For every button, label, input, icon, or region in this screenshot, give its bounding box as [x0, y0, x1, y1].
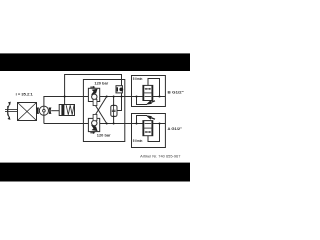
flushing component between A and B	[111, 105, 117, 116]
svg-text:A G1/2": A G1/2"	[168, 126, 183, 131]
svg-text:i = 35.2:1: i = 35.2:1	[16, 92, 33, 96]
junction dot component top on line A	[113, 96, 115, 98]
rotation arrows symbol	[8, 104, 10, 118]
wire: cross line from V1 outlet to line B	[95, 105, 107, 124]
bottom flow control valve	[143, 121, 153, 136]
brake (spring applied)	[59, 105, 74, 116]
junction dot shuttle leg on line A	[121, 96, 123, 98]
wire: line A (upper main line)	[44, 97, 165, 124]
top letterbox bar	[0, 53, 190, 71]
svg-text:Artikel Nr. 740 655-967: Artikel Nr. 740 655-967	[140, 155, 180, 159]
bottom letterbox bar	[0, 163, 190, 182]
junction dot component bottom on line B	[113, 123, 115, 125]
top block branch with check	[137, 97, 147, 105]
bottom block branch with check	[137, 116, 147, 124]
hydraulic motor	[39, 106, 48, 115]
wire: component bridge vertical	[113, 97, 115, 124]
gearbox i=35.2:1	[18, 103, 37, 121]
brake piston	[61, 105, 64, 115]
svg-text:120 bar: 120 bar	[94, 81, 108, 86]
top block bypass loop	[148, 79, 160, 97]
node: manifold enclosure box	[83, 80, 124, 142]
bottom block bypass loop	[148, 124, 160, 142]
relief valve V1 (top, 120 bar)	[88, 88, 99, 101]
bottom check valve arrow	[146, 115, 152, 119]
relief valve V2 (bottom, 120 bar)	[88, 118, 99, 131]
coupling right of motor	[49, 108, 52, 114]
svg-text:5 l/min: 5 l/min	[133, 138, 143, 143]
wire: pilot line from brake up and over to shuttle	[65, 75, 122, 111]
wire: line B (lower main line)	[44, 123, 165, 125]
junction dot cross to line B	[106, 123, 108, 125]
coupling left of motor	[36, 108, 39, 114]
input shaft (double line)	[5, 110, 18, 112]
top check valve arrow	[146, 100, 152, 104]
junction dot pilot x line A	[64, 96, 66, 98]
svg-text:120 bar: 120 bar	[97, 133, 111, 138]
junction dot cross to line A	[106, 96, 108, 98]
V2 pilot arrow below	[90, 132, 93, 134]
right block bottom (port A)	[132, 114, 166, 148]
right block top (port B)	[132, 76, 166, 107]
brake spring	[66, 105, 74, 115]
top flow control valve	[143, 85, 153, 100]
svg-text:B G1/2": B G1/2"	[168, 89, 184, 94]
svg-text:5 l/min: 5 l/min	[133, 76, 143, 81]
V1 pilot arrow on top	[90, 86, 93, 88]
shuttle valve	[116, 86, 122, 93]
shaft motor to brake	[51, 110, 59, 112]
wire: cross line from V2 outlet to line A	[95, 97, 107, 116]
